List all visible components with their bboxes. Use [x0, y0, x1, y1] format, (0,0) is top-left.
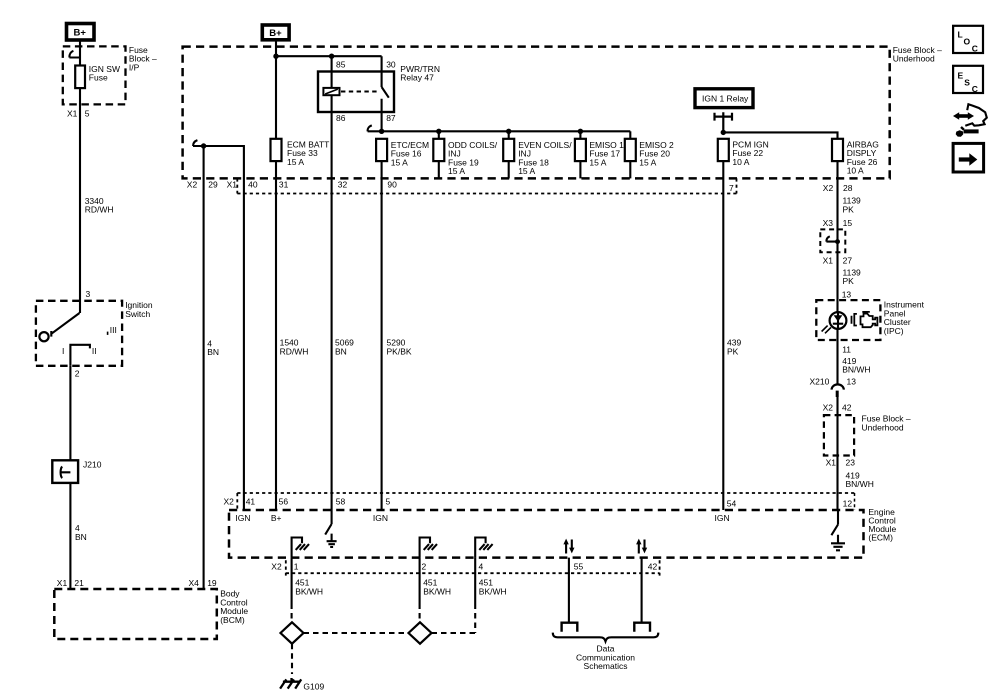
label Fuse Block Underhood (pass-through) [862, 414, 911, 433]
terminal lug pin 55 [562, 623, 578, 632]
pin X3 15 inline connector [823, 218, 853, 228]
svg-text:III: III [110, 325, 117, 335]
nav icon LOC box [953, 26, 983, 54]
svg-text:PK/BK: PK/BK [387, 346, 412, 356]
svg-text:13: 13 [842, 289, 852, 299]
svg-text:B+: B+ [269, 28, 282, 39]
svg-text:90: 90 [387, 180, 397, 190]
svg-text:2: 2 [422, 562, 427, 572]
svg-text:2: 2 [75, 368, 80, 378]
label Body Control Module (BCM) [220, 589, 248, 625]
pin 12 ECM [843, 493, 855, 510]
nav icon ESC box [953, 66, 983, 94]
svg-text:X2: X2 [823, 183, 834, 193]
svg-text:RD/WH: RD/WH [280, 346, 309, 356]
dashed splice bus between diamonds [304, 632, 476, 634]
ECM internal serial data arrows at pin 55 [563, 539, 574, 554]
svg-text:(BCM): (BCM) [220, 615, 245, 625]
wire 1540 RD/WH fuse 33 to ECM 56 [275, 161, 277, 510]
wire 4 BN ignition switch to J210 [69, 366, 71, 461]
svg-text:Underhood: Underhood [862, 422, 904, 432]
svg-text:X2: X2 [271, 562, 282, 572]
svg-text:IGN: IGN [373, 513, 388, 523]
svg-text:85: 85 [336, 59, 346, 69]
connector X1 dotted boundary below fuse block [237, 178, 736, 193]
svg-text:PK: PK [843, 276, 855, 286]
svg-text:Fuse: Fuse [89, 73, 108, 83]
wire (fuse block X1-40 to ECM X2-41) [193, 146, 244, 510]
svg-text:15 A: 15 A [287, 157, 304, 167]
wire bus to relay pins 85 and 30 [276, 56, 382, 88]
svg-text:G109: G109 [303, 682, 324, 692]
relay switch blade 30 to 87 [382, 87, 389, 131]
svg-text:30: 30 [386, 59, 396, 69]
wire B+ to IGN SW Fuse [79, 42, 81, 66]
svg-text:J210: J210 [83, 460, 102, 470]
engine pictogram inside IPC [852, 312, 878, 327]
fuse IGN SW Fuse [75, 64, 120, 88]
svg-text:87: 87 [386, 113, 396, 123]
pin X2 28 fuse block [823, 183, 853, 193]
svg-text:O: O [964, 37, 971, 47]
svg-text:II: II [92, 346, 97, 356]
relay IGN 1 Relay box [695, 89, 753, 108]
label Ignition Switch [125, 300, 153, 319]
wire relay coil 86 down through fuse block pin 32 to ECM pin 58 [331, 95, 333, 510]
ECM bottom pin row: X2 1, 2, 4, 55, 42 [271, 562, 657, 572]
svg-text:BK/WH: BK/WH [423, 586, 451, 596]
svg-text:BN: BN [75, 532, 87, 542]
svg-text:12: 12 [843, 498, 853, 508]
svg-text:31: 31 [279, 180, 289, 190]
label Fuse Block Underhood [893, 45, 942, 64]
svg-text:BK/WH: BK/WH [479, 586, 507, 596]
svg-text:S: S [964, 78, 970, 88]
svg-text:E: E [958, 71, 964, 81]
svg-text:15 A: 15 A [589, 157, 606, 167]
engine control module ECM dashed box [229, 510, 864, 558]
ECM internal serial data arrows at pin 42 [636, 539, 647, 554]
svg-text:(IPC): (IPC) [884, 326, 904, 336]
connector X2 dotted boundary below ECM [286, 560, 660, 575]
svg-text:C: C [972, 44, 978, 54]
ECM internal switch to ground at pin 58 [325, 510, 336, 547]
svg-text:42: 42 [842, 403, 852, 413]
svg-text:56: 56 [279, 497, 289, 507]
fuse block bottom pin row: X2 29, X1 40, 31, 32, 90, 7 [187, 180, 734, 194]
fuse ETC/ECM Fuse 16 15A [376, 139, 429, 168]
svg-text:X210: X210 [810, 377, 830, 387]
fuse block underhood dashed box [183, 47, 890, 179]
svg-text:X2: X2 [224, 497, 235, 507]
svg-text:10 A: 10 A [847, 166, 864, 176]
indicator lamp symbol inside IPC [822, 312, 847, 333]
wire 1139 PK to IPC pin 13 [843, 267, 862, 286]
svg-text:PK: PK [727, 346, 739, 356]
svg-text:BN/WH: BN/WH [842, 365, 870, 375]
ignition switch position mark III [108, 325, 117, 335]
svg-text:55: 55 [574, 562, 584, 572]
wire B+ into fuse block [275, 40, 277, 139]
svg-text:Switch: Switch [125, 309, 150, 319]
node junction IGN1 relay output [721, 130, 726, 135]
svg-text:86: 86 [336, 113, 346, 123]
pin X2 42 fuse block underhood [823, 403, 852, 413]
svg-text:58: 58 [336, 497, 346, 507]
connector terminal symbol inside X3/X1 box [826, 236, 840, 244]
svg-text:19: 19 [207, 578, 217, 588]
svg-text:Underhood: Underhood [893, 54, 935, 64]
svg-text:X2: X2 [187, 180, 198, 190]
power terminal B+ (center, feeds Fuse Block Underhood) [262, 25, 289, 40]
wire 451 BK/WH ECM pin 2 to splice [420, 558, 451, 622]
ground G109 chassis symbol [280, 678, 324, 692]
svg-text:40: 40 [248, 180, 258, 190]
svg-text:27: 27 [843, 255, 853, 265]
svg-text:X1: X1 [67, 108, 78, 118]
svg-text:3: 3 [86, 289, 91, 299]
wire 5290 PK/BK fuse 16 to ECM 5 [381, 161, 383, 510]
label Instrument Panel Cluster (IPC) [884, 300, 925, 336]
wire IGN1 relay output bus to airbag fuse [723, 132, 837, 138]
ignition bus from relay 87 to fuses [382, 130, 631, 132]
ignition switch pivot circle [39, 332, 48, 341]
svg-text:PK: PK [843, 204, 855, 214]
terminal lug pin 42 [634, 623, 650, 632]
svg-text:BN/WH: BN/WH [846, 479, 874, 489]
svg-text:X2: X2 [823, 403, 834, 413]
pin X1 23 fuse block underhood [826, 458, 856, 468]
svg-text:IGN 1 Relay: IGN 1 Relay [702, 94, 749, 104]
nav icon forward arrow box [953, 143, 984, 172]
wire 439 PK fuse 22 to ECM 54 [722, 161, 724, 510]
svg-text:29: 29 [208, 180, 218, 190]
fuse block underhood pass-through dashed box [824, 415, 854, 455]
svg-text:BK/WH: BK/WH [295, 586, 323, 596]
svg-text:15 A: 15 A [639, 157, 656, 167]
svg-text:42: 42 [648, 562, 658, 572]
svg-text:41: 41 [246, 497, 256, 507]
svg-text:32: 32 [338, 180, 348, 190]
wire 1139 PK airbag fuse down right column [836, 161, 838, 384]
svg-text:Relay 47: Relay 47 [400, 73, 434, 83]
fuse EVEN COILS/INJ Fuse 18 15A [503, 131, 572, 178]
node junction X1-40 branch [201, 143, 206, 148]
splice J210 box [52, 460, 101, 483]
brace grouping data link wires [553, 633, 659, 642]
svg-text:15: 15 [843, 218, 853, 228]
svg-text:X4: X4 [189, 578, 200, 588]
svg-text:28: 28 [843, 183, 853, 193]
ECM internal chassis ground at pin 2 [420, 538, 437, 558]
fuse PCM IGN Fuse 22 10A [718, 139, 769, 167]
svg-text:RD/WH: RD/WH [85, 205, 114, 215]
pin X4 19 of BCM [189, 578, 217, 588]
svg-text:11: 11 [842, 345, 851, 355]
svg-text:X1: X1 [823, 255, 834, 265]
connector terminal symbol at X1-40 branch [193, 140, 197, 146]
svg-text:Schematics: Schematics [584, 661, 628, 671]
label Fuse Block I/P [129, 45, 157, 72]
svg-text:BN: BN [207, 347, 219, 357]
node junction at relay coil feed [329, 54, 334, 59]
splice node (diamond) under pin 2 [409, 622, 432, 643]
svg-text:IGN: IGN [715, 513, 730, 523]
svg-text:IGN: IGN [235, 513, 250, 523]
wire 3340 RD/WH fuse to ignition switch pin 3 [79, 88, 81, 313]
ECM internal switch to ground at pin 12 [831, 510, 845, 550]
relay actuation dashed link [341, 90, 379, 92]
wire 419 BN/WH to ECM pin 12 [846, 471, 874, 490]
ignition switch dashed box [36, 301, 122, 366]
wire 451 BK/WH ECM pin 1 to splice [292, 558, 323, 622]
ECM internal chassis ground at pin 1 [292, 538, 309, 558]
connector X2 dotted boundary above ECM [237, 493, 854, 510]
wire 419 BN/WH IPC to X210 [842, 356, 870, 375]
svg-text:21: 21 [74, 578, 84, 588]
svg-text:(ECM): (ECM) [868, 533, 893, 543]
fuse EMISO 2 Fuse 20 15A [625, 131, 674, 178]
nav icon service arrows and wrench [953, 104, 987, 137]
wire 4 BN J210 to BCM pin 21 [69, 483, 71, 589]
wire ECM pin 55 to data link terminal [568, 558, 570, 623]
svg-text:10 A: 10 A [732, 157, 749, 167]
inline connector box X3/X1 [820, 229, 845, 252]
fuse ECM BATT Fuse 33 15A [271, 139, 330, 167]
svg-text:C: C [972, 84, 978, 94]
fuse EMISO 1 Fuse 17 15A [575, 131, 624, 178]
position marks I and II [62, 346, 97, 356]
node junction at B+ feed [273, 54, 278, 59]
svg-text:1: 1 [294, 562, 299, 572]
fuse AIRBAG DISPLY Fuse 26 10A [832, 139, 879, 176]
relay coil [323, 88, 339, 95]
svg-text:4: 4 [479, 562, 484, 572]
connector X210 half-circle symbol [832, 384, 844, 397]
ignition switch movable contact blade [51, 313, 79, 337]
pin X1 21 of BCM [57, 578, 84, 588]
svg-text:5: 5 [85, 108, 90, 118]
instrument panel cluster IPC dashed box [816, 300, 880, 340]
ignition switch fixed contact to pin 2 [70, 345, 90, 366]
label Engine Control Module (ECM) [868, 507, 896, 543]
svg-text:I/P: I/P [129, 62, 140, 72]
svg-text:B+: B+ [74, 28, 87, 39]
wire X210 to fuse block underhood [836, 397, 838, 510]
svg-text:X1: X1 [57, 578, 68, 588]
svg-text:13: 13 [847, 377, 857, 387]
dashed wire splice to ground G109 [291, 644, 293, 674]
wire 5069 BN label (relay 86 to ECM 58) [335, 338, 354, 357]
node junctions on ignition bus [379, 129, 583, 134]
fuse block I/P dashed box [63, 46, 126, 104]
svg-text:X1: X1 [227, 180, 238, 190]
body control module BCM dashed box [54, 589, 217, 639]
ECM internal chassis ground at pin 4 [475, 538, 492, 558]
power terminal B+ (left, feeds Fuse Block I/P) [67, 24, 95, 41]
svg-text:X1: X1 [826, 458, 837, 468]
ECM top pin row: X2 41, 56, 58, 5, 54 [224, 497, 737, 509]
svg-text:5: 5 [386, 497, 391, 507]
relay PWR/TRN Relay 47 box [318, 72, 394, 113]
svg-text:I: I [62, 346, 64, 356]
svg-text:15 A: 15 A [448, 166, 465, 176]
wire 4 BN fuse block X2-29 to BCM X4-19 [203, 146, 205, 589]
connector terminal symbol inside Fuse Block I/P [69, 51, 80, 58]
svg-text:L: L [958, 30, 963, 40]
svg-text:X3: X3 [823, 218, 834, 228]
svg-text:54: 54 [727, 499, 737, 509]
fuse ODD COILS/INJ Fuse 19 15A [433, 131, 497, 178]
label Data Communication Schematics [576, 644, 635, 671]
svg-text:B+: B+ [271, 513, 282, 523]
svg-text:15 A: 15 A [391, 157, 408, 167]
splice node (diamond) under pin 1 [281, 622, 304, 643]
connector terminal symbol under IGN 1 relay [715, 112, 733, 132]
pin X1 5 of fuse block I/P [67, 108, 90, 118]
connector terminal symbol at relay output bus [368, 125, 382, 131]
pin X1 27 inline connector [823, 255, 853, 265]
wire ECM pin 42 to data link terminal [641, 558, 643, 623]
inline connector X210 pin 13 [810, 377, 857, 387]
svg-text:BN: BN [335, 346, 347, 356]
svg-text:15 A: 15 A [518, 166, 535, 176]
wire 451 BK/WH ECM pin 4 to splice bus [475, 558, 506, 633]
ECM internal pin names IGN B+ IGN IGN [235, 513, 729, 523]
svg-text:7: 7 [729, 183, 734, 193]
svg-text:23: 23 [846, 458, 856, 468]
